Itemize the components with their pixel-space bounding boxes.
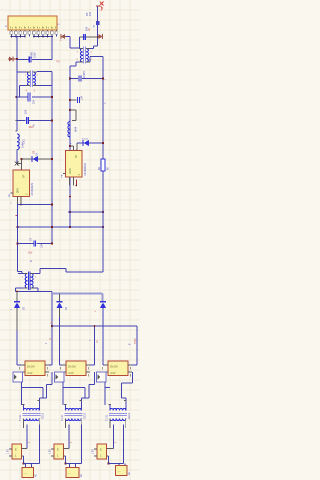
capacitor C4	[33, 241, 35, 247]
junction N2 y97	[51, 96, 53, 98]
ch1 secondary pins down	[23, 425, 25, 428]
wire left rail to T3	[18, 271, 23, 273]
svg-text:1 5V: 1 5V	[50, 449, 52, 454]
svg-text:z: z	[71, 143, 73, 144]
junction N2 y159	[51, 158, 53, 160]
junction N2 y120	[51, 119, 53, 121]
connector box2 ch1	[22, 468, 34, 478]
U2 left pin FB	[63, 173, 66, 175]
diode D1	[14, 301, 20, 303]
wire y159 to N2 rail	[22, 158, 53, 160]
wire T3 bottom-right down	[35, 287, 39, 289]
svg-text:EE10: EE10	[42, 412, 45, 419]
connector CN1 body	[8, 16, 57, 30]
optocoupler ch2 body	[66, 361, 86, 376]
svg-text:10MH: 10MH	[83, 71, 86, 78]
diode D6	[31, 156, 33, 162]
wire L rail continues	[16, 60, 18, 132]
svg-text:M W: M W	[69, 372, 75, 375]
svg-text:M W: M W	[28, 372, 34, 375]
junction x97.5 y37	[97, 36, 99, 38]
wire y293.5 thick to diodes	[52, 293, 103, 295]
transformer T3	[18, 273, 24, 275]
wire left pin bus	[11, 36, 25, 38]
svg-text:1KV: 1KV	[28, 253, 33, 255]
wire N2 rail	[51, 72, 53, 244]
net flag box ch3	[97, 372, 107, 382]
svg-text:T1 E1: T1 E1	[61, 414, 64, 421]
svg-text:SS: SS	[66, 306, 68, 310]
svg-text:2M 2W: 2M 2W	[68, 366, 76, 369]
connector CN1 pin-name text row	[10, 27, 12, 29]
svg-text:D7 47: D7 47	[82, 139, 89, 141]
wire diode1 feed	[16, 292, 18, 302]
junction x103 y143	[102, 142, 104, 144]
optocoupler ch1 body	[25, 361, 45, 376]
inductor L2	[68, 122, 70, 138]
junction L rail y97	[15, 96, 17, 98]
ch3 pin number ticks	[102, 367, 104, 370]
red tick left of rail	[15, 215, 17, 217]
capacitor C1 X-cap	[28, 57, 30, 63]
capacitor C3	[25, 117, 27, 124]
connector/LED box1 ch2	[54, 444, 64, 459]
U1 left pin FB	[11, 192, 14, 194]
wire choke1 bottom-right	[37, 85, 52, 87]
svg-text:R: R	[29, 260, 33, 262]
svg-text:104: 104	[81, 95, 84, 100]
wire choke1 bottom-left elbow	[20, 85, 27, 87]
svg-text:- -: - -	[118, 469, 121, 473]
svg-text:BP: BP	[75, 154, 78, 158]
connector/LED box1 ch1	[12, 444, 22, 459]
junction on L rail	[16, 58, 18, 60]
svg-text:LNK304GN: LNK304GN	[31, 183, 34, 196]
svg-text:2M 2W: 2M 2W	[27, 366, 35, 369]
svg-text:104: 104	[85, 26, 88, 31]
svg-text:M W: M W	[111, 372, 117, 375]
fuse F1 marker (red X and hook)	[96, 5, 100, 7]
junction x70 y78	[69, 77, 71, 79]
optocoupler ch3 body	[108, 361, 128, 376]
wire L down from left bus	[16, 37, 18, 60]
wire port to right rail	[66, 36, 70, 38]
svg-text:- -: - -	[24, 471, 27, 475]
ch3 secondary pins down	[109, 425, 111, 428]
ch2 pin tick marks	[64, 404, 67, 406]
wire bus y212	[68, 211, 103, 213]
svg-text:1K: 1K	[89, 28, 91, 31]
wire right rail x103	[102, 57, 104, 273]
junction x70 y146	[69, 145, 71, 147]
junction L rail y120	[16, 120, 18, 122]
svg-text:EE10: EE10	[84, 412, 87, 419]
op-amp U1 LNK304 body	[13, 170, 30, 197]
capacitor C2	[27, 93, 29, 102]
svg-text:FU: FU	[57, 61, 60, 64]
svg-text:2M 2W: 2M 2W	[110, 366, 118, 369]
wire ch3 right feed elbow	[128, 364, 137, 366]
capacitor C6	[78, 76, 80, 82]
svg-text:224: 224	[33, 99, 36, 104]
transformer T2	[81, 49, 83, 63]
wire x52 down from y291.5	[51, 292, 53, 365]
svg-text:310V: 310V	[33, 52, 36, 58]
wire x103 elbow y272	[66, 271, 103, 273]
svg-text:400V: 400V	[29, 127, 35, 129]
wire ch3 diode out elbow	[103, 364, 108, 366]
svg-text:1 5V: 1 5V	[93, 449, 95, 454]
net flag box ch2	[55, 372, 65, 382]
wire ch2 to box2	[65, 456, 67, 464]
box1 ch1 right stubs	[22, 448, 28, 450]
ch3 pin tick marks	[109, 404, 112, 406]
transformer T ch2	[66, 408, 82, 410]
svg-text:AC: AC	[35, 473, 38, 477]
junction x70 y100	[69, 99, 71, 101]
svg-text:T1 E1: T1 E1	[106, 414, 109, 421]
wire ch2 diode out elbow	[60, 364, 67, 366]
wire ch3 to box2	[108, 456, 110, 464]
wire ch2 right feed elbow	[86, 364, 95, 366]
wire bus y326	[52, 325, 137, 327]
ch1 pin tick marks	[22, 404, 25, 406]
U2 bottom pins	[69, 177, 71, 186]
wire ch1 right feed elbow	[45, 364, 52, 366]
wire ch1 diode out elbow	[17, 364, 25, 366]
junction x103 y78	[102, 77, 104, 79]
svg-text:104: 104	[25, 109, 28, 114]
ch2 pin number ticks	[60, 367, 62, 370]
wire T3 top-right	[35, 273, 41, 275]
svg-text:SS: SS	[23, 306, 25, 310]
U1 bottom pins	[17, 197, 19, 205]
wire bottom bus y291.5	[16, 291, 53, 293]
wire bus y243 with capacitor	[16, 242, 18, 244]
svg-text:T1 E1: T1 E1	[19, 414, 22, 421]
net flag box ch1	[13, 372, 23, 382]
svg-text:AC: AC	[80, 473, 83, 477]
junction U1 top pin	[20, 158, 22, 160]
ch1 pin number ticks	[19, 367, 21, 370]
wire D3 out thick	[102, 308, 104, 356]
wire y143	[77, 142, 103, 144]
wire x94.5 down	[94, 326, 96, 365]
wire snubber y37	[80, 36, 98, 38]
svg-text:104: 104	[41, 243, 44, 248]
ch2 secondary pins down	[65, 425, 67, 428]
transformer T ch3	[110, 408, 126, 410]
wire D2 out	[59, 308, 61, 317]
wire into T2 top-left	[70, 47, 79, 49]
wire mid rail x70	[69, 66, 71, 227]
svg-text:TP24: TP24	[134, 338, 137, 344]
wire ch3 primary loop	[104, 382, 106, 405]
wire T3 bottom-left elbow	[16, 287, 25, 289]
wire ch1 primary loop	[21, 382, 23, 405]
svg-text:AC: AC	[128, 471, 131, 475]
wire D1 out	[16, 308, 18, 365]
svg-text:BP: BP	[23, 174, 26, 178]
svg-text:DRN: DRN	[70, 168, 72, 173]
svg-text:1 5V: 1 5V	[8, 449, 10, 454]
wire L1 to U1 pin	[17, 163, 22, 165]
svg-text:LNK306GN: LNK306GN	[84, 163, 87, 176]
svg-text:R5: R5	[85, 12, 89, 16]
svg-text:E: E	[15, 448, 17, 452]
wire top rail x97.5	[97, 6, 99, 46]
transformer T ch1	[24, 408, 40, 410]
inductor LF1 common-mode choke	[28, 72, 30, 86]
svg-text:E: E	[57, 448, 59, 452]
diode D3	[100, 301, 106, 303]
wire N down from right bus	[51, 37, 53, 60]
detour wiring to L2	[69, 109, 71, 111]
svg-text:MH4: MH4	[75, 126, 78, 132]
wire U2 to rail x70	[69, 186, 71, 213]
box1 ch2 right stubs	[64, 448, 70, 450]
no-connect cross	[15, 162, 19, 166]
svg-text:G: G	[50, 338, 52, 340]
wire ch1 to box2	[23, 456, 25, 464]
connector/LED box1 ch3	[97, 444, 107, 459]
diode D7	[82, 140, 84, 146]
wire snubber down to transformer	[79, 37, 81, 49]
wire diode2 feed	[59, 294, 61, 302]
connector CN1 pins and pin-number boxes	[10, 30, 12, 31]
diode D2	[56, 301, 62, 303]
resistor R2	[101, 159, 105, 171]
wire bus y204	[18, 204, 53, 206]
port arrow mid (AC input)	[65, 36, 66, 38]
wire bus y227	[18, 226, 104, 228]
connector box2 ch2	[66, 468, 79, 478]
wire x137 down	[136, 326, 138, 365]
wire choke1 top-right to N2 rail	[37, 71, 52, 73]
wire ch2 primary loop	[62, 382, 64, 405]
junction x52 y326	[51, 325, 53, 327]
svg-text:DRN: DRN	[18, 188, 20, 193]
capacitor C7	[77, 97, 79, 103]
svg-text:2K: 2K	[108, 167, 110, 170]
port ACL (left input port symbol)	[8, 58, 9, 60]
inductor L1	[16, 130, 18, 132]
wire left rail y204-y292	[17, 205, 19, 272]
svg-text:- -: - -	[68, 471, 71, 475]
wire N horizontal with X-cap	[17, 59, 28, 61]
resistor R5 on rail	[96, 21, 100, 25]
wire T2 bottom-left elbow	[76, 61, 79, 63]
wire rail top elbow into T2 top-right	[94, 45, 98, 47]
wire y268-272 joins	[65, 269, 67, 273]
port DRAIN arrow right	[98, 36, 99, 38]
svg-text:EE10: EE10	[128, 412, 131, 419]
red pin mark below U2	[75, 180, 77, 187]
wire right pin bus	[34, 36, 52, 38]
op-amp U2 LNK306 body	[66, 151, 83, 178]
wire L rail down	[16, 60, 18, 73]
box1 ch3 right stubs	[107, 448, 114, 450]
capacitor C5 on y37	[82, 34, 84, 40]
wire T2 bottom-right to right rail	[89, 57, 91, 63]
svg-text:1N: 1N	[36, 153, 39, 156]
svg-text:E: E	[100, 448, 102, 452]
connector box2 ch3	[116, 466, 128, 476]
svg-text:1MH: 1MH	[21, 142, 25, 148]
